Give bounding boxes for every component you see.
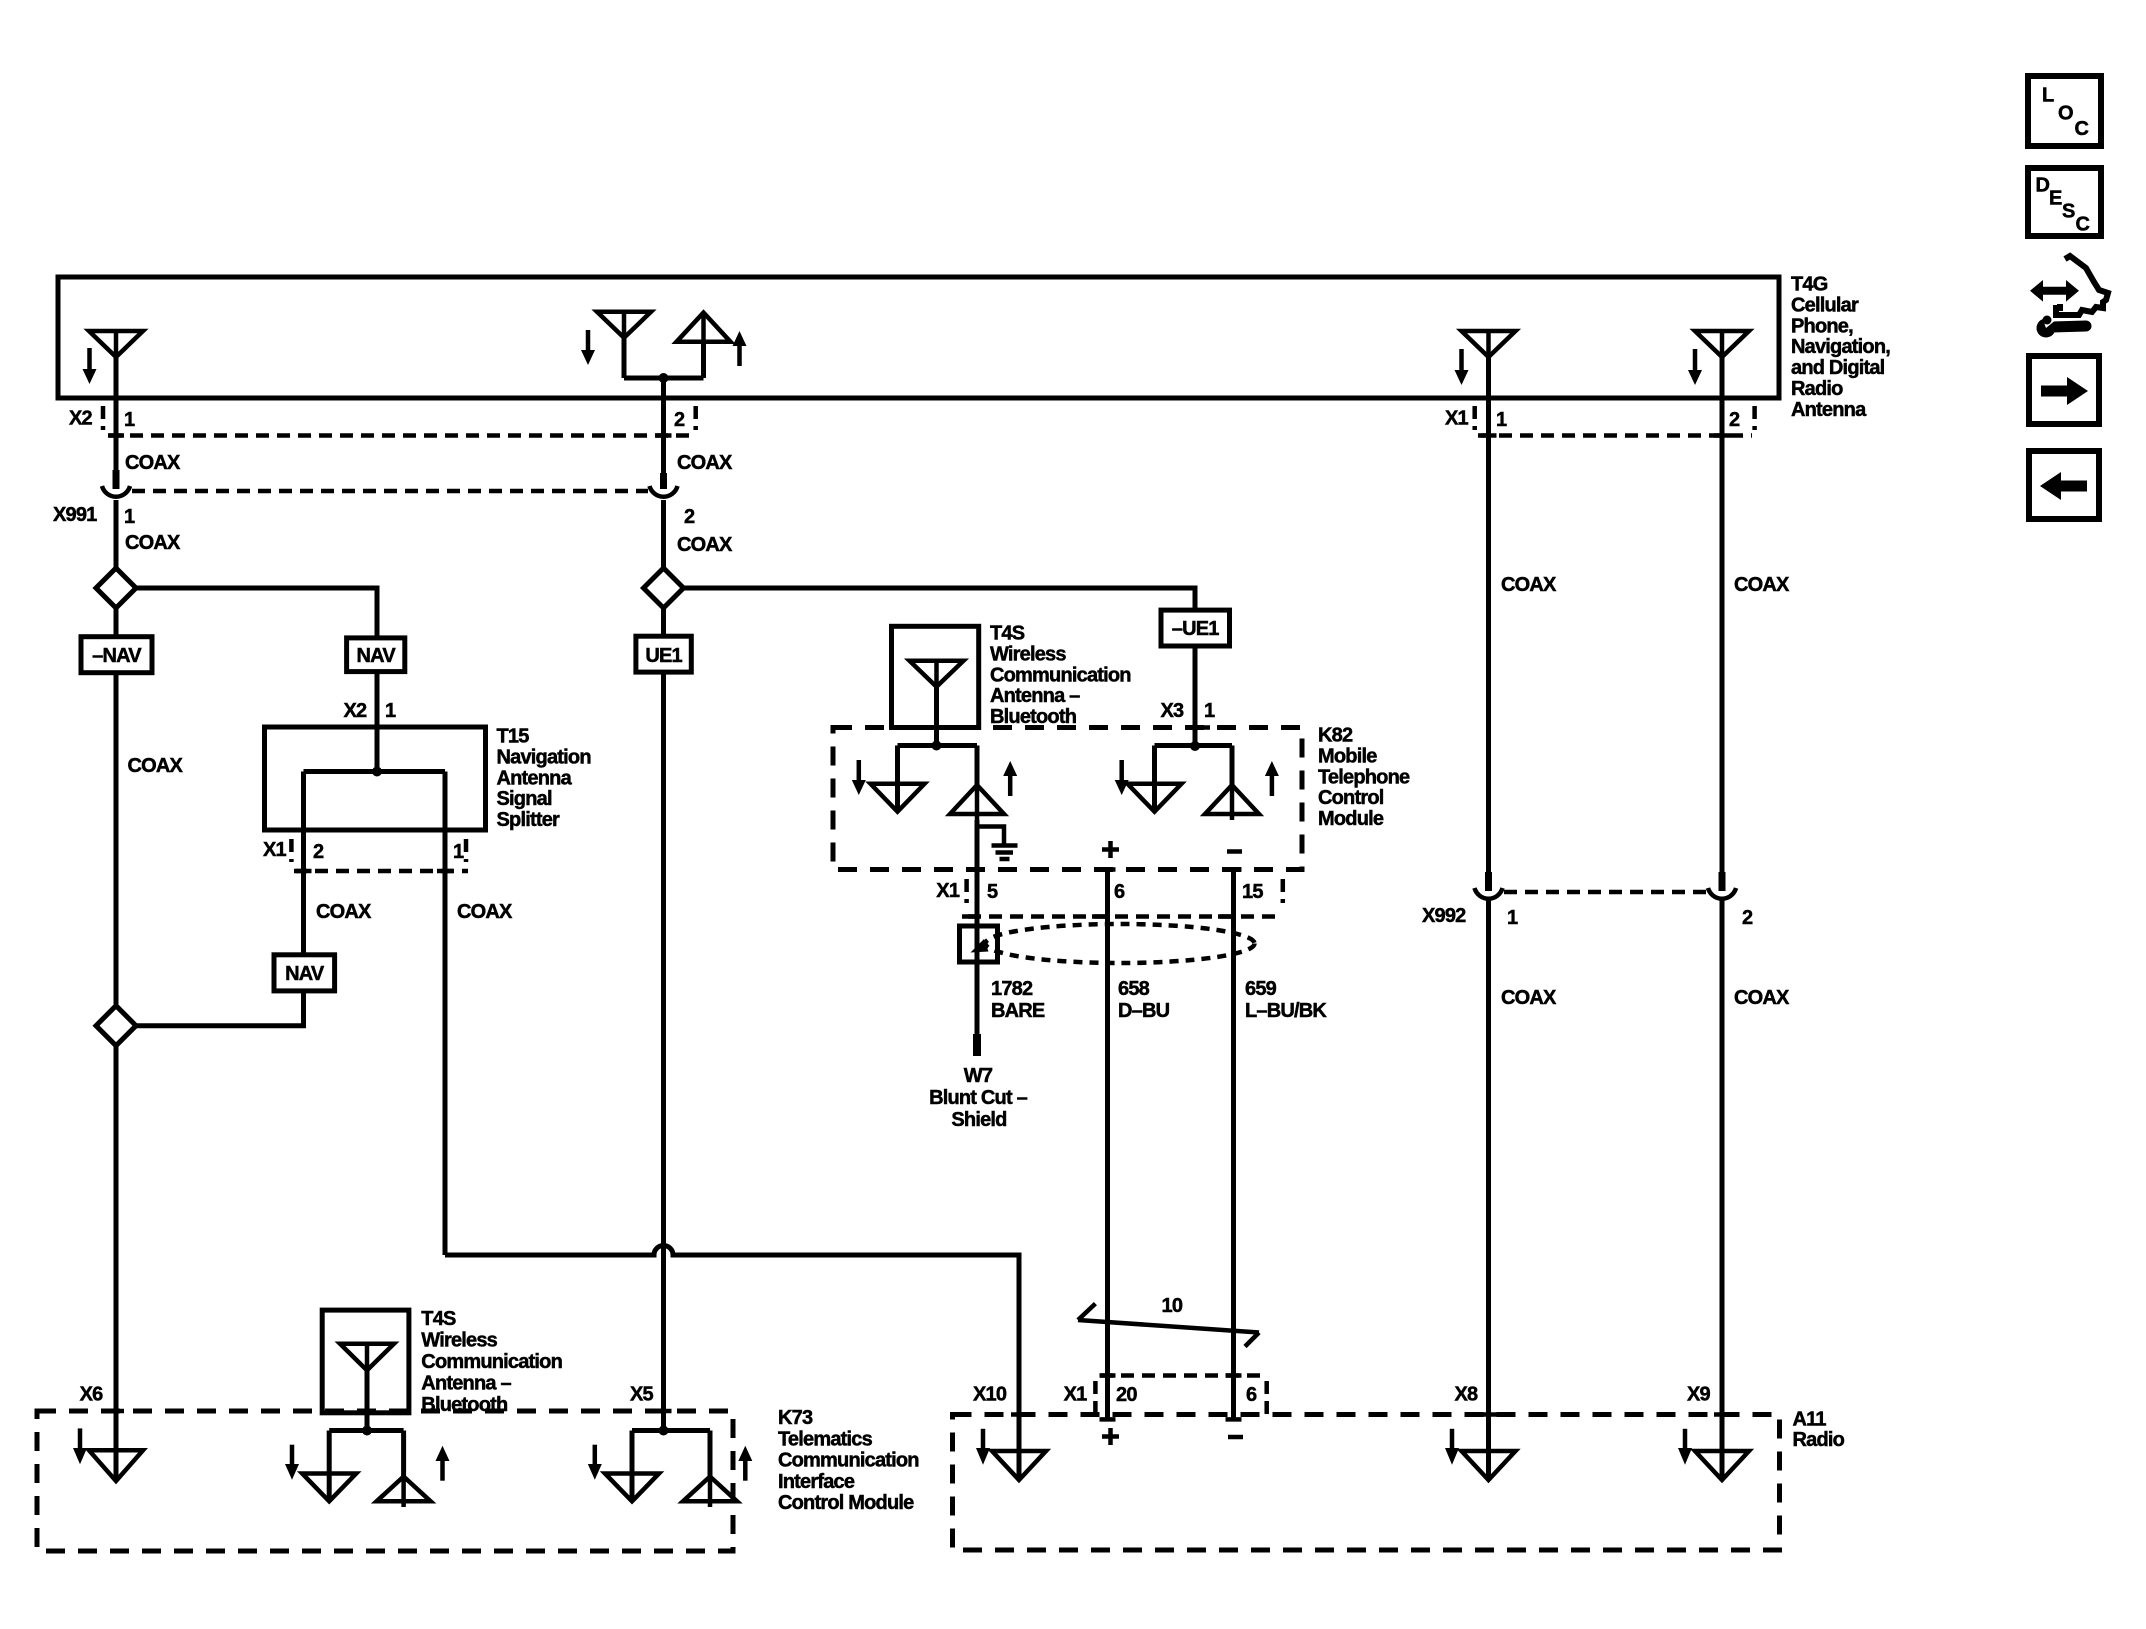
- shield drain curved arrow: [971, 939, 989, 953]
- wire T4G X1-1 antenna lead down: [1486, 357, 1491, 873]
- connector X1 of A11: [1064, 1376, 1268, 1420]
- svg-text:1: 1: [124, 409, 135, 431]
- connector X1 of T4G: [1445, 406, 1755, 436]
- wire 659 L-BU/BK: [1231, 870, 1236, 1420]
- wire 658 D-BU: [1105, 870, 1110, 1420]
- svg-text:COAX: COAX: [1501, 987, 1557, 1009]
- svg-text:Signal: Signal: [497, 788, 552, 810]
- label A11 Radio: [1793, 1408, 1845, 1451]
- sidebar icon service/repair (double arrow, panel outline, wrench): [2030, 256, 2108, 338]
- svg-text:COAX: COAX: [1734, 987, 1790, 1009]
- antenna module T4G box: [58, 277, 1779, 398]
- svg-text:O: O: [2058, 103, 2073, 125]
- sidebar icon DESC: [2028, 168, 2101, 236]
- connector X1 of T15: [263, 839, 468, 871]
- antenna symbol T4G right-2 (receive): [1695, 331, 1749, 357]
- label W7 Blunt Cut - Shield: [929, 1065, 1028, 1131]
- arrow up K73 X5 pair: [738, 1446, 752, 1481]
- module K73 Telematics Communication Interface Control Module dashed box: [37, 1411, 733, 1551]
- svg-text:Antenna –: Antenna –: [421, 1373, 511, 1395]
- wire shield pin 5 down: [975, 820, 980, 1034]
- arrow down A11 X8: [1445, 1429, 1459, 1465]
- arrow down T4G middle: [581, 330, 595, 365]
- svg-text:COAX: COAX: [1501, 574, 1557, 596]
- svg-text:20: 20: [1116, 1384, 1137, 1406]
- antenna module T4S (Bluetooth) box upper: [892, 626, 979, 727]
- svg-text:2: 2: [1742, 907, 1753, 929]
- splice diamond lower-left: [96, 1006, 136, 1046]
- svg-text:Antenna: Antenna: [1791, 399, 1867, 421]
- svg-text:E: E: [2049, 188, 2062, 210]
- svg-text:X991: X991: [53, 504, 97, 526]
- svg-text:T4S: T4S: [421, 1308, 456, 1330]
- label minus inside K82: [1227, 849, 1242, 854]
- cable code box UE1: [636, 636, 691, 672]
- svg-text:Mobile: Mobile: [1318, 745, 1377, 767]
- arrow up T4G middle: [733, 331, 747, 366]
- svg-text:1: 1: [1496, 409, 1507, 431]
- svg-text:6: 6: [1246, 1384, 1257, 1406]
- label T4S Wireless Communication Antenna - Bluetooth (lower): [421, 1308, 562, 1416]
- wire X992-2 to radio X9: [1720, 899, 1725, 1480]
- pin tick X8 at A11 edge: [1481, 1412, 1497, 1417]
- arrow down K73 T4S pair: [285, 1445, 299, 1480]
- svg-text:COAX: COAX: [1734, 574, 1790, 596]
- wire NAV down to T15 X2-1: [375, 672, 380, 772]
- svg-text:2: 2: [684, 506, 695, 528]
- svg-text:1: 1: [385, 700, 396, 722]
- svg-text:T4S: T4S: [990, 623, 1025, 645]
- svg-text:X10: X10: [973, 1384, 1007, 1406]
- wire NAV lower to splice 3: [136, 991, 304, 1026]
- antenna symbol A11 X8 (receive): [1462, 1451, 1516, 1480]
- arrow down K73 X5 pair: [588, 1445, 602, 1480]
- svg-text:1782: 1782: [991, 978, 1033, 1000]
- arrow up K82 left pair: [1003, 761, 1017, 796]
- wire splitter output pin 1: [443, 772, 448, 1256]
- connector X991 dashed face: [132, 489, 648, 494]
- svg-text:Wireless: Wireless: [421, 1330, 497, 1352]
- label plus below A11 X1-20: [1102, 1428, 1119, 1445]
- svg-text:COAX: COAX: [316, 901, 372, 923]
- wire X991-2 to splice: [661, 500, 666, 570]
- wire left main to K73 X6: [114, 1046, 119, 1481]
- svg-text:Wireless: Wireless: [990, 643, 1066, 665]
- svg-text:Splitter: Splitter: [497, 809, 561, 831]
- arrow down K82 left pair: [852, 760, 866, 795]
- connector X1 of K82: [936, 879, 1283, 917]
- arrow down K73 X6: [73, 1428, 87, 1464]
- label T15 Navigation Antenna Signal Splitter: [497, 726, 591, 832]
- K82 internal antenna pair left (receive + transmit): [871, 746, 1005, 821]
- splitter T15 box: [265, 727, 486, 830]
- svg-text:X2: X2: [69, 408, 93, 430]
- svg-text:X6: X6: [80, 1384, 104, 1406]
- svg-text:S: S: [2062, 201, 2075, 223]
- arrow down T4G right-2: [1688, 349, 1702, 385]
- svg-text:X1: X1: [1445, 408, 1469, 430]
- wire -UE1 down to K82 X3-1: [1190, 646, 1210, 751]
- pin tick K82 X1-6: [1100, 867, 1116, 872]
- svg-text:1: 1: [1204, 700, 1215, 722]
- svg-text:Navigation,: Navigation,: [1791, 336, 1890, 358]
- svg-text:Antenna –: Antenna –: [990, 685, 1080, 707]
- label K82 Mobile Telephone Control Module: [1318, 725, 1410, 831]
- svg-text:K82: K82: [1318, 725, 1353, 747]
- svg-text:D: D: [2036, 175, 2050, 197]
- svg-text:1: 1: [453, 841, 464, 863]
- svg-text:Navigation: Navigation: [497, 746, 591, 768]
- svg-text:COAX: COAX: [125, 532, 181, 554]
- wire splice-mid branch to -UE1: [684, 588, 1196, 610]
- svg-text:COAX: COAX: [125, 452, 181, 474]
- svg-text:X2: X2: [344, 700, 368, 722]
- svg-text:Module: Module: [1318, 808, 1384, 830]
- label T4G Cellular Phone, Navigation, and Digital Radio Antenna: [1791, 274, 1890, 421]
- pin tick K82 X1-15: [1226, 867, 1242, 872]
- svg-text:W7: W7: [964, 1065, 993, 1087]
- antenna module T4S (Bluetooth) box lower: [322, 1310, 409, 1413]
- label minus below A11 X1-6: [1228, 1435, 1243, 1440]
- wire T4G X2-1 antenna lead down: [114, 357, 119, 471]
- svg-text:X8: X8: [1455, 1384, 1479, 1406]
- svg-text:X992: X992: [1422, 905, 1466, 927]
- wire splice-left down to -NAV: [114, 608, 119, 637]
- svg-text:Blunt Cut –: Blunt Cut –: [929, 1087, 1028, 1109]
- shield terminal box W7: [960, 926, 998, 962]
- svg-text:NAV: NAV: [285, 963, 325, 985]
- wire splitter output pin 2: [301, 772, 306, 955]
- svg-text:2: 2: [1729, 409, 1740, 431]
- svg-text:COAX: COAX: [457, 901, 513, 923]
- antenna symbol T4G middle dual (receive + transmit): [597, 312, 731, 383]
- svg-text:X1: X1: [1064, 1384, 1088, 1406]
- antenna symbol T4S upper: [910, 661, 964, 687]
- svg-text:BARE: BARE: [991, 1000, 1045, 1022]
- svg-text:15: 15: [1242, 881, 1263, 903]
- svg-text:Antenna: Antenna: [497, 767, 573, 789]
- splice diamond middle: [644, 568, 684, 608]
- pin tick X6 at K73 edge: [108, 1409, 124, 1414]
- module K82 Mobile Telephone Control Module dashed box: [833, 728, 1302, 870]
- pin tick X10 at A11 edge: [1011, 1412, 1027, 1417]
- connector X2 of T4G: [69, 406, 696, 436]
- svg-text:6: 6: [1114, 881, 1125, 903]
- antenna symbol K73 X6 (receive): [89, 1450, 143, 1481]
- svg-text:X1: X1: [263, 839, 287, 861]
- svg-text:2: 2: [313, 841, 324, 863]
- svg-text:L–BU/BK: L–BU/BK: [1245, 1000, 1327, 1022]
- svg-text:X5: X5: [630, 1384, 654, 1406]
- svg-text:Communication: Communication: [421, 1351, 562, 1373]
- wire X991-1 to splice: [114, 500, 119, 570]
- svg-text:Control Module: Control Module: [778, 1492, 914, 1514]
- svg-text:Telematics: Telematics: [778, 1428, 873, 1450]
- svg-text:Interface: Interface: [778, 1471, 855, 1493]
- svg-text:C: C: [2076, 214, 2090, 236]
- svg-text:10: 10: [1162, 1295, 1183, 1317]
- wire count marker 10: [1078, 1295, 1259, 1347]
- K82 internal antenna pair right (receive + transmit): [1128, 746, 1260, 821]
- splitter internal tee: [304, 767, 446, 777]
- arrow down K82 right pair: [1115, 760, 1129, 795]
- svg-text:659: 659: [1245, 978, 1277, 1000]
- svg-text:COAX: COAX: [128, 755, 184, 777]
- cable code box -NAV: [81, 637, 152, 673]
- in-line connector X992 pin 2: [1708, 872, 1736, 899]
- svg-text:Telephone: Telephone: [1318, 766, 1410, 788]
- svg-text:Communication: Communication: [778, 1450, 919, 1472]
- sidebar icon arrow left: [2029, 451, 2099, 519]
- arrow up K82 right pair: [1265, 761, 1279, 796]
- wire -NAV down: [114, 673, 119, 1006]
- chassis ground inside K82: [977, 827, 1018, 860]
- svg-text:X1: X1: [936, 880, 960, 902]
- pin tick K82 X1-5: [969, 867, 985, 872]
- arrow down A11 X9: [1678, 1429, 1692, 1465]
- svg-text:Shield: Shield: [951, 1109, 1006, 1131]
- label circuit 658 D-BU: [1118, 978, 1170, 1022]
- svg-text:2: 2: [674, 409, 685, 431]
- svg-text:COAX: COAX: [677, 534, 733, 556]
- wire UE1 down to K73 X5: [661, 672, 666, 1430]
- antenna symbol T4G left (receive): [89, 331, 143, 357]
- svg-text:NAV: NAV: [357, 645, 397, 667]
- wire T4S lower lead into K73: [362, 1370, 372, 1435]
- connector X992 dashed face: [1504, 890, 1706, 895]
- wire T4G X2-2 antenna lead down: [661, 378, 666, 473]
- antenna symbol A11 X10 (receive): [992, 1451, 1046, 1480]
- antenna symbol A11 X9 (receive): [1695, 1451, 1749, 1480]
- svg-text:T4G: T4G: [1791, 274, 1828, 296]
- svg-text:COAX: COAX: [677, 452, 733, 474]
- label circuit 1782 BARE: [991, 978, 1045, 1022]
- cable code box NAV: [347, 638, 405, 672]
- blunt cut terminal W7: [973, 1034, 981, 1056]
- sidebar icon LOC: [2028, 76, 2101, 146]
- svg-text:–NAV: –NAV: [92, 645, 142, 667]
- svg-text:T15: T15: [497, 726, 530, 748]
- svg-text:A11: A11: [1793, 1408, 1827, 1430]
- in-line connector X991 pin 1: [102, 470, 130, 497]
- svg-text:Phone,: Phone,: [1791, 315, 1853, 337]
- wire splitter pin1 horizontal to radio X10 with hop: [445, 1246, 1019, 1480]
- antenna symbol T4S lower: [340, 1344, 394, 1371]
- svg-text:UE1: UE1: [645, 645, 682, 667]
- antenna symbol T4G right-1 (receive): [1462, 331, 1516, 357]
- splice diamond left: [96, 568, 136, 608]
- svg-text:Control: Control: [1318, 787, 1384, 809]
- wire T4G X1-2 antenna lead down: [1720, 357, 1725, 873]
- label plus inside K82: [1102, 841, 1119, 858]
- pin tick X9 at A11 edge: [1714, 1412, 1730, 1417]
- pin tick X5 at K73 edge: [656, 1409, 672, 1414]
- wire splice-mid down to UE1: [661, 608, 666, 636]
- arrow down A11 X10: [976, 1429, 990, 1465]
- arrow down T4G right-1: [1455, 349, 1469, 385]
- wire splice-left branch to NAV: [136, 588, 377, 638]
- shield cable dashed ellipse: [986, 924, 1255, 963]
- arrow down T4G left: [83, 348, 97, 384]
- svg-text:Radio: Radio: [1793, 1429, 1845, 1451]
- in-line connector X992 pin 1: [1475, 872, 1503, 899]
- cable code box -UE1: [1161, 610, 1230, 646]
- svg-text:–UE1: –UE1: [1172, 618, 1220, 640]
- svg-text:K73: K73: [778, 1407, 813, 1429]
- label K73 Telematics Communication Interface Control Module: [778, 1407, 919, 1514]
- svg-text:D–BU: D–BU: [1118, 1000, 1170, 1022]
- svg-text:5: 5: [987, 881, 998, 903]
- K73 internal antenna pair at X5 (receive + transmit): [605, 1426, 737, 1508]
- sidebar icon arrow right: [2029, 356, 2099, 424]
- svg-text:1: 1: [124, 506, 135, 528]
- svg-text:1: 1: [1507, 907, 1518, 929]
- svg-text:Cellular: Cellular: [1791, 294, 1859, 316]
- svg-text:C: C: [2075, 118, 2089, 140]
- svg-text:and Digital: and Digital: [1791, 357, 1885, 379]
- arrow up K73 T4S pair: [436, 1446, 450, 1481]
- svg-text:Communication: Communication: [990, 664, 1131, 686]
- label T4S Wireless Communication Antenna - Bluetooth (upper): [990, 623, 1131, 729]
- svg-text:Radio: Radio: [1791, 378, 1843, 400]
- svg-text:Bluetooth: Bluetooth: [990, 706, 1076, 728]
- label circuit 659 L-BU/BK: [1245, 978, 1327, 1022]
- svg-text:L: L: [2042, 85, 2054, 107]
- in-line connector X991 pin 2: [650, 473, 678, 497]
- svg-text:X3: X3: [1161, 700, 1185, 722]
- module A11 Radio dashed box: [953, 1415, 1780, 1551]
- cable code box NAV lower: [274, 955, 335, 991]
- K73 internal antenna pair at T4S (receive + transmit): [302, 1431, 430, 1508]
- wire T4S upper lead into K82: [932, 687, 942, 751]
- svg-text:658: 658: [1118, 978, 1150, 1000]
- wire X992-1 to radio X8: [1486, 899, 1491, 1480]
- svg-text:X9: X9: [1687, 1384, 1711, 1406]
